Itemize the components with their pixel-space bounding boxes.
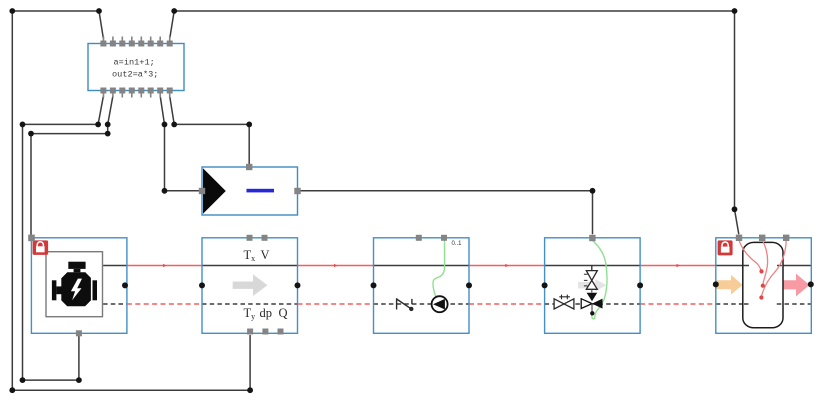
wire junction above valve block (590, 188, 596, 194)
wire junction top near statement pin 1 (96, 8, 102, 14)
valve block top pin (589, 235, 595, 241)
wire junction below engine bottom pin (76, 377, 82, 383)
wire from statement block bottom pin 8 to converter top pin (170, 96, 250, 164)
engine right edge dot (122, 282, 128, 288)
wire junction above tank (732, 206, 738, 212)
wire junction top-right corner (732, 8, 738, 14)
wire junction left column upper (20, 122, 26, 128)
manual valve symbol (554, 295, 574, 309)
statement block top pins (100, 37, 172, 47)
pump block edge dots (371, 282, 473, 288)
wire from converter right pin to valve block top pin (301, 191, 593, 234)
wire junction below statement pin 7 (162, 122, 168, 128)
tank interior line stubs (743, 266, 782, 305)
engine icon (52, 262, 97, 307)
tank pink outlet arrow (783, 274, 810, 297)
pump block boundary (374, 238, 470, 333)
pipe block labels (244, 248, 288, 321)
pipe block gray arrow (233, 274, 268, 296)
wire junction bottom-left corner (9, 387, 15, 393)
tank edge dots (713, 281, 814, 287)
switch symbol (397, 298, 414, 311)
tank block boundary (716, 238, 812, 333)
statement block bottom pins (100, 88, 172, 98)
pump control green curve (433, 240, 445, 297)
svg-text:TxV: TxV (244, 248, 270, 263)
valve block edge dots (542, 282, 644, 288)
pump symbol (432, 296, 448, 312)
red fluid line solid (between blocks) (127, 265, 716, 267)
pipe block pins (247, 235, 284, 335)
pipe block edge dots (199, 282, 301, 288)
engine inner frame (46, 252, 103, 317)
three-way valve symbol (581, 289, 602, 311)
tank sensor red curve 2 (762, 240, 767, 285)
wire from statement block top pin 8 along top to tank top pin 1 (170, 11, 739, 234)
tank orange inlet arrow (717, 275, 743, 295)
three-way valve bottom dot (590, 311, 594, 315)
valve block faint arrow (578, 279, 607, 291)
red fluid line dashed (between blocks) (127, 303, 716, 305)
signal converter pins (199, 164, 301, 194)
tank vessel (743, 242, 783, 327)
wire junction below statement pin 2 (105, 122, 111, 128)
tank sensor red curve 3 (762, 240, 787, 296)
svg-text:out2=a*3;: out2=a*3; (112, 70, 158, 80)
wire junction above converter top pin (246, 122, 252, 128)
pump block 0..1 label (452, 241, 463, 247)
statement block U1 (88, 44, 184, 91)
tank top pins (736, 235, 790, 241)
wire junction bend below statement pin 2 (105, 131, 111, 137)
engine pins (28, 235, 82, 337)
wire from block2 bottom pin via bottom-left loop to statement block top pin 1 (12, 11, 250, 390)
engine lock badge (33, 240, 49, 255)
svg-text:TydpQ: TydpQ (244, 306, 288, 321)
pump block pins (416, 235, 447, 241)
wire junction above engine corner pin (28, 131, 34, 137)
wire junction below statement pin 1 (95, 122, 101, 128)
black in-block line dashed (103, 303, 811, 305)
tank sensor red curve 1 (739, 240, 761, 271)
wire junction top-left corner (9, 8, 15, 14)
wire from statement block bottom pin 2 to engine top-left pin (31, 96, 113, 235)
wire junction below statement pin 8 (171, 122, 177, 128)
valve block boundary (545, 238, 641, 333)
tank lock badge (718, 240, 733, 255)
red flow direction markers (163, 264, 680, 267)
tank sensor dots (759, 269, 765, 299)
svg-text:0..1: 0..1 (452, 241, 463, 247)
wire junction left of converter (162, 188, 168, 194)
valve control green curve (592, 240, 607, 319)
wire junction bottom below pipe block (247, 387, 253, 393)
engine block boundary (31, 238, 127, 333)
wire junction left column lower (20, 377, 26, 383)
wire from statement block bottom pin 1 to engine bottom pin (23, 96, 104, 380)
svg-text:a=in1+1;: a=in1+1; (114, 58, 155, 68)
signal converter block (202, 167, 298, 215)
relief valve symbol (vertical) (584, 266, 597, 290)
wire junction top near statement pin 8 (171, 8, 177, 14)
pipe block (T V / T dp Q) (202, 238, 298, 333)
wire from statement block bottom pin 7 to converter left pin (160, 96, 199, 191)
black in-block line solid (103, 265, 811, 267)
